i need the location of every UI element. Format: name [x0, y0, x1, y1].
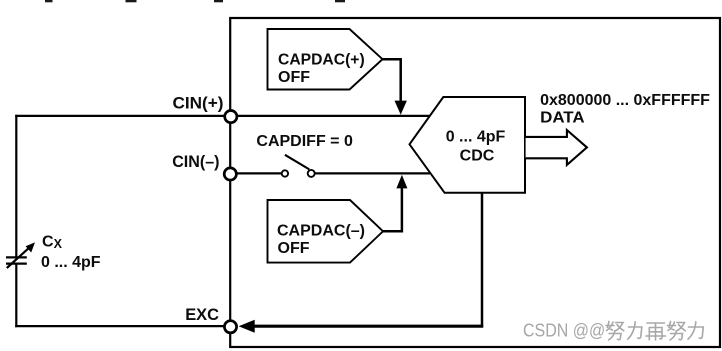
watermark glyph 努 (2): [668, 322, 686, 341]
svg-text:0 ... 4pF: 0 ... 4pF: [41, 254, 101, 271]
watermark glyph 力 (1): [628, 322, 642, 339]
wire: CAPDAC(+) to CIN(+) net: [383, 59, 401, 101]
switch on CIN(-) line: left contact: [282, 170, 288, 176]
CDC block (0 ... 4pF CDC): [410, 97, 526, 193]
wire: EXC net external horizontal: [15, 325, 230, 327]
cropped caption text remnant 2: [126, 0, 137, 2]
svg-text:0 ... 4pF: 0 ... 4pF: [446, 129, 506, 146]
terminal node CIN(-): [224, 168, 236, 180]
arrowhead down into CIN(+) wire: [395, 101, 407, 115]
wire: external left vertical (bottom of Cx): [15, 264, 17, 328]
wire: CIN(+) net from external node to CDC input: [15, 115, 430, 117]
wire: switch to CDC input: [315, 172, 431, 174]
svg-text:CIN(+): CIN(+): [173, 94, 224, 112]
DATA output bus arrow: [526, 130, 587, 165]
svg-text:CX: CX: [42, 234, 63, 252]
arrowhead into EXC terminal: [239, 320, 255, 333]
IC boundary box: [230, 18, 720, 347]
arrowhead up into CIN(-) wire: [396, 175, 407, 189]
svg-text:CSDN @@: CSDN @@: [523, 321, 605, 341]
watermark glyph 再: [646, 323, 666, 340]
svg-text:CAPDIFF = 0: CAPDIFF = 0: [256, 133, 353, 150]
wire: CDC output down to EXC feedback: [481, 193, 484, 328]
wire: CIN(-) terminal to switch: [231, 172, 282, 174]
watermark glyph 力 (2): [688, 322, 703, 339]
wire: EXC feedback horizontal: [252, 325, 483, 328]
cropped caption text remnant 4: [335, 0, 345, 2]
terminal node CIN(+): [225, 111, 237, 123]
svg-text:OFF: OFF: [278, 69, 310, 86]
svg-text:CDC: CDC: [460, 147, 495, 164]
watermark glyph 努 (1): [606, 322, 624, 341]
switch blade (open): [285, 155, 309, 170]
capacitor CX (variable) plates: [6, 257, 27, 263]
svg-text:CAPDAC(+): CAPDAC(+): [278, 52, 365, 69]
cropped caption text remnant 1: [45, 0, 53, 2]
terminal node EXC: [224, 321, 236, 333]
svg-text:OFF: OFF: [278, 240, 310, 257]
wire: CAPDAC(-) to CIN(-) net: [383, 188, 402, 232]
CAPDAC(-) block: [268, 200, 384, 263]
svg-text:DATA: DATA: [540, 109, 585, 126]
CAPDAC(+) block: [268, 29, 383, 90]
variable capacitor arrow: [7, 242, 35, 268]
svg-text:CIN(–): CIN(–): [172, 153, 219, 171]
switch right contact: [308, 170, 315, 177]
svg-text:0x800000 ... 0xFFFFFF: 0x800000 ... 0xFFFFFF: [540, 92, 710, 109]
svg-text:CAPDAC(–): CAPDAC(–): [277, 223, 365, 240]
cropped caption text remnant 3: [214, 0, 223, 2]
wire: external left vertical (top of Cx): [15, 115, 17, 258]
svg-text:EXC: EXC: [185, 306, 219, 324]
